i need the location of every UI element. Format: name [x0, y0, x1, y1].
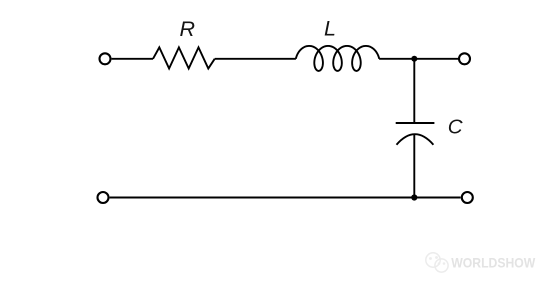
watermark logo [426, 253, 448, 272]
wire resistor to inductor [215, 58, 296, 60]
junction dot top node [411, 56, 417, 62]
svg-text:R: R [180, 17, 196, 41]
wire top node to capacitor [413, 59, 415, 123]
capacitor C [396, 123, 435, 145]
resistor R [153, 47, 215, 68]
wire capacitor to bottom node [413, 134, 415, 197]
wire bottom rail [110, 197, 461, 199]
svg-text:C: C [448, 116, 463, 139]
svg-text:WORLDSHOW: WORLDSHOW [451, 255, 536, 270]
inductor L [296, 46, 379, 71]
wire inductor to terminal top-right [379, 58, 459, 60]
terminal top-right [459, 53, 470, 64]
junction dot bottom node [411, 194, 417, 200]
svg-text:L: L [324, 16, 336, 40]
terminal bottom-left [98, 192, 109, 203]
terminal top-left [100, 53, 111, 64]
terminal bottom-right [462, 192, 473, 203]
wire top-left to resistor [112, 58, 153, 60]
